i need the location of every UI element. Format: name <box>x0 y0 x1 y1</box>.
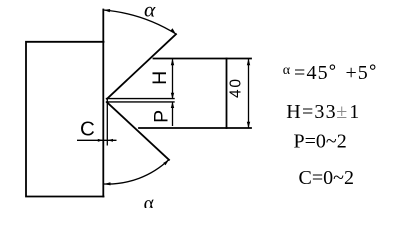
svg-text:α: α <box>144 0 156 21</box>
svg-text:H: H <box>149 71 171 85</box>
svg-text:±: ± <box>336 101 347 123</box>
svg-text:α: α <box>142 192 157 208</box>
svg-text:C: C <box>80 117 95 140</box>
svg-text:P: P <box>151 110 173 123</box>
svg-text:P=0~2: P=0~2 <box>294 130 347 152</box>
svg-text:=45: =45 <box>294 62 329 84</box>
svg-text:α: α <box>283 63 291 78</box>
svg-text:1: 1 <box>349 101 359 123</box>
svg-text:C=0~2: C=0~2 <box>299 167 354 189</box>
svg-text:H=33: H=33 <box>286 101 337 123</box>
svg-text:40: 40 <box>228 77 245 98</box>
svg-text:+5: +5 <box>346 62 369 84</box>
